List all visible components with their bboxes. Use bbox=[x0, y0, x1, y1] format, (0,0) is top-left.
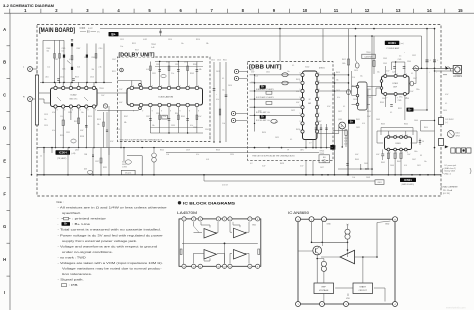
svg-text:R613: R613 bbox=[336, 72, 340, 74]
svg-text:D: D bbox=[3, 126, 6, 131]
svg-text:11: 11 bbox=[334, 8, 339, 13]
svg-text:tion tolerances.: tion tolerances. bbox=[62, 272, 93, 276]
svg-text:2: 2 bbox=[193, 219, 194, 221]
svg-text:BIAS OSC: BIAS OSC bbox=[70, 98, 79, 101]
svg-text:10u: 10u bbox=[81, 112, 84, 114]
test point TP302 bbox=[160, 29, 162, 36]
dbb tp box bbox=[319, 155, 330, 163]
svg-text:3-2 SCHEMATIC DIAGRAM: 3-2 SCHEMATIC DIAGRAM bbox=[3, 3, 55, 8]
phones jack bbox=[453, 66, 461, 74]
svg-text:1.0k: 1.0k bbox=[222, 123, 225, 125]
svg-text:3: 3 bbox=[300, 113, 301, 115]
svg-text:R340: R340 bbox=[166, 62, 170, 64]
resistor R331 bbox=[345, 130, 347, 136]
svg-text:3: 3 bbox=[300, 81, 301, 83]
wire/resistor/capacitor input cluster bbox=[40, 39, 112, 83]
wire x109 drop bbox=[108, 106, 110, 148]
svg-text:Note :: Note : bbox=[57, 200, 64, 204]
svg-text:R631: R631 bbox=[356, 119, 360, 121]
svg-text:0.8V: 0.8V bbox=[376, 154, 380, 156]
svg-text:TP: TP bbox=[287, 150, 289, 152]
svg-text:2.0V: 2.0V bbox=[367, 116, 371, 118]
svg-text:1: 1 bbox=[184, 219, 185, 221]
svg-text:C303: C303 bbox=[80, 27, 86, 30]
svg-text:12: 12 bbox=[365, 8, 370, 13]
capacitor C322 ellipse bbox=[125, 160, 131, 164]
svg-text:IC BLOCK DIAGRAMS: IC BLOCK DIAGRAMS bbox=[183, 201, 235, 206]
svg-text:8: 8 bbox=[242, 8, 245, 13]
svg-text:2: 2 bbox=[180, 86, 181, 88]
dbb unit dashed border bbox=[248, 62, 334, 161]
svg-text:R605: R605 bbox=[381, 162, 385, 164]
svg-text:R313: R313 bbox=[75, 77, 79, 79]
svg-text:[DBB UNIT]: [DBB UNIT] bbox=[249, 65, 282, 71]
svg-text:14: 14 bbox=[199, 266, 201, 268]
svg-text:4.5V: 4.5V bbox=[445, 94, 449, 96]
svg-text:0.1: 0.1 bbox=[390, 112, 392, 114]
battery icon bbox=[451, 148, 471, 153]
svg-text:7: 7 bbox=[387, 97, 388, 99]
svg-text:301: 301 bbox=[369, 97, 372, 99]
svg-text:1.2V: 1.2V bbox=[119, 89, 123, 91]
MAIN BOARD label bbox=[38, 26, 76, 32]
svg-text:5: 5 bbox=[407, 152, 408, 154]
svg-text:4: 4 bbox=[117, 8, 120, 13]
svg-text:2: 2 bbox=[170, 86, 171, 88]
svg-text:12: 12 bbox=[224, 266, 226, 268]
svg-text:R317: R317 bbox=[74, 121, 78, 123]
left ruler scale bbox=[3, 13, 10, 310]
capacitor dbb c2 bbox=[282, 81, 288, 85]
svg-text:R610: R610 bbox=[424, 127, 428, 129]
svg-text:C349: C349 bbox=[398, 100, 402, 102]
svg-text:- Signal path.: - Signal path. bbox=[58, 278, 85, 282]
svg-text:3%: 3% bbox=[97, 32, 100, 34]
svg-text:Voltage variations may be note: Voltage variations may be noted due to n… bbox=[62, 267, 162, 271]
svg-text:B.B: B.B bbox=[323, 157, 326, 159]
svg-text:C318: C318 bbox=[116, 129, 120, 131]
svg-text:R344: R344 bbox=[175, 113, 179, 115]
svg-text:L: L bbox=[23, 67, 25, 69]
svg-text:F: F bbox=[3, 191, 6, 196]
svg-text:DC-DC: DC-DC bbox=[125, 173, 132, 175]
svg-text:1: 1 bbox=[24, 8, 27, 13]
transformer T301 bbox=[152, 153, 157, 158]
svg-text:R618: R618 bbox=[296, 79, 300, 81]
svg-text:0.1: 0.1 bbox=[209, 136, 211, 138]
capacitor C341 bbox=[355, 63, 359, 68]
svg-text:C620: C620 bbox=[250, 70, 254, 72]
svg-text:1kHz: 1kHz bbox=[300, 150, 304, 152]
svg-text:CIRCUIT: CIRCUIT bbox=[358, 290, 367, 292]
svg-text:C625: C625 bbox=[275, 137, 279, 139]
svg-text:7: 7 bbox=[249, 219, 250, 221]
svg-text:: printed resistor: : printed resistor bbox=[72, 217, 106, 221]
svg-text:15: 15 bbox=[193, 266, 195, 268]
svg-text:C627: C627 bbox=[320, 167, 324, 169]
phones jack arrow bbox=[445, 66, 448, 70]
transistor Q301 bbox=[339, 122, 346, 129]
ic block diagrams header bbox=[178, 201, 181, 204]
svg-text:6: 6 bbox=[319, 129, 320, 131]
svg-text:4.7u: 4.7u bbox=[216, 99, 219, 101]
svg-text:R316: R316 bbox=[196, 39, 200, 41]
wire top bus bbox=[100, 28, 435, 30]
svg-text:0.01: 0.01 bbox=[206, 159, 209, 161]
AN8650 block diagram bbox=[296, 217, 398, 307]
capacitor C347 on rail bbox=[426, 58, 428, 69]
svg-text:4.7u: 4.7u bbox=[337, 97, 340, 99]
wires below IC302 bbox=[55, 108, 95, 148]
svg-text:D601: D601 bbox=[456, 133, 460, 135]
svg-text:(6V): (6V) bbox=[84, 169, 87, 171]
LA4570M pin numbers bbox=[183, 219, 258, 268]
svg-text:5: 5 bbox=[390, 152, 391, 154]
svg-text:3: 3 bbox=[300, 105, 301, 107]
svg-text:C343: C343 bbox=[383, 58, 387, 60]
svg-text:C612: C612 bbox=[211, 60, 215, 62]
svg-text:C347: C347 bbox=[413, 78, 417, 80]
svg-text:7: 7 bbox=[397, 97, 398, 99]
svg-text:9: 9 bbox=[142, 110, 143, 112]
capacitor dbb c1 bbox=[282, 73, 288, 77]
svg-text:0.5: 0.5 bbox=[399, 56, 401, 58]
svg-text:G: G bbox=[3, 224, 6, 229]
svg-text:0.1: 0.1 bbox=[222, 78, 224, 80]
svg-text:56k: 56k bbox=[206, 43, 209, 45]
svg-text:R319: R319 bbox=[88, 116, 92, 118]
svg-text:IC302: IC302 bbox=[71, 95, 78, 97]
svg-text:2: 2 bbox=[133, 86, 134, 88]
svg-text:THIS UNIT IS SUPPLIED AS THE C: THIS UNIT IS SUPPLIED AS THE CRMKRA20 BL… bbox=[252, 155, 295, 158]
svg-text:C601: C601 bbox=[377, 182, 381, 184]
svg-text:TOTAL CURRENT: TOTAL CURRENT bbox=[441, 185, 459, 188]
svg-text:0.5V: 0.5V bbox=[198, 116, 202, 118]
svg-text:0 dB: 0 dB bbox=[151, 47, 154, 49]
bus y152.3 bbox=[166, 151, 319, 153]
svg-text:56k: 56k bbox=[47, 51, 50, 53]
svg-text:10: 10 bbox=[249, 266, 251, 268]
svg-text:8: 8 bbox=[257, 219, 258, 221]
wire drop to DBB bbox=[279, 29, 281, 62]
svg-text:8: 8 bbox=[80, 110, 81, 112]
components above IC301 bbox=[373, 36, 405, 75]
component value micro labels 2 bbox=[44, 39, 427, 179]
svg-text:B+: B+ bbox=[111, 32, 115, 36]
svg-text:+: + bbox=[216, 94, 217, 96]
svg-text:C618: C618 bbox=[353, 99, 357, 101]
svg-text:C333: C333 bbox=[184, 62, 188, 64]
svg-text:BLK SEL AMP 1.0k: BLK SEL AMP 1.0k bbox=[256, 119, 270, 122]
bus y169 bbox=[338, 168, 372, 170]
wire B+ bus bbox=[119, 35, 422, 37]
svg-text:Q303: Q303 bbox=[75, 150, 79, 152]
svg-text:100u: 100u bbox=[414, 151, 418, 153]
resistor stubs left bbox=[43, 148, 45, 153]
capacitor C348 on rail bbox=[434, 58, 436, 69]
wire rail x348 bbox=[348, 29, 350, 175]
svg-text:C348: C348 bbox=[382, 98, 386, 100]
svg-text:C337: C337 bbox=[146, 116, 150, 118]
svg-text:5: 5 bbox=[224, 219, 225, 221]
svg-text:R323: R323 bbox=[216, 150, 220, 152]
connector CN302 pin bbox=[28, 97, 33, 102]
svg-text:470u: 470u bbox=[399, 97, 403, 99]
svg-text:(TR, AMP): (TR, AMP) bbox=[57, 157, 67, 160]
svg-text:1.0u: 1.0u bbox=[47, 67, 50, 69]
wire q301 base bbox=[317, 133, 339, 135]
svg-text:IC602: IC602 bbox=[305, 67, 309, 69]
svg-text:C336: C336 bbox=[156, 113, 160, 115]
svg-text:7: 7 bbox=[211, 8, 214, 13]
svg-text:+: + bbox=[436, 72, 437, 74]
svg-text:0.01: 0.01 bbox=[146, 69, 149, 71]
svg-text:0.022: 0.022 bbox=[88, 28, 93, 30]
capacitor on ground bus bbox=[87, 170, 92, 174]
svg-text:33k: 33k bbox=[92, 69, 95, 71]
svg-text:4.7u: 4.7u bbox=[190, 125, 193, 127]
svg-text:8: 8 bbox=[88, 110, 89, 112]
B+ label q301 bbox=[348, 120, 355, 124]
svg-text:B+: B+ bbox=[350, 120, 354, 124]
svg-text:6: 6 bbox=[179, 8, 182, 13]
svg-text:C612: C612 bbox=[216, 71, 220, 73]
IC301 label bbox=[385, 41, 400, 45]
svg-text:C320: C320 bbox=[230, 154, 234, 156]
svg-text:IC601: IC601 bbox=[395, 143, 400, 145]
svg-text:8: 8 bbox=[72, 110, 73, 112]
svg-text:2: 2 bbox=[55, 8, 58, 13]
svg-text:VR: VR bbox=[369, 89, 372, 91]
svg-text:START: START bbox=[359, 285, 366, 288]
svg-text:8: 8 bbox=[57, 110, 58, 112]
svg-text:IC304: IC304 bbox=[59, 151, 67, 155]
dbb input connectors bbox=[231, 69, 247, 122]
svg-text:GP08: GP08 bbox=[456, 135, 460, 137]
wire y130.6 bbox=[333, 130, 348, 132]
svg-text:0.8V: 0.8V bbox=[251, 72, 255, 74]
svg-text:2SB: 2SB bbox=[84, 154, 87, 156]
wire drop to DBB right bbox=[322, 29, 324, 62]
svg-text:9: 9 bbox=[198, 110, 199, 112]
svg-text:0.5V: 0.5V bbox=[327, 106, 331, 108]
DOLBY UNIT label bbox=[118, 52, 155, 58]
svg-text:C313: C313 bbox=[44, 114, 48, 116]
svg-text:B+: B+ bbox=[408, 108, 412, 112]
svg-text:C312: C312 bbox=[60, 77, 64, 79]
svg-text:10: 10 bbox=[303, 8, 308, 13]
svg-text:+: + bbox=[437, 60, 439, 62]
svg-text:6V: 6V bbox=[420, 155, 423, 157]
svg-text:R628: R628 bbox=[280, 163, 284, 165]
dbb IC602 bbox=[301, 71, 319, 140]
svg-text:: B+ Line: : B+ Line bbox=[72, 222, 91, 226]
svg-text:GND: GND bbox=[252, 225, 257, 227]
svg-text:100k: 100k bbox=[342, 63, 346, 65]
svg-text:1.6V: 1.6V bbox=[407, 154, 411, 156]
svg-text:8: 8 bbox=[64, 110, 65, 112]
svg-text:PB : 95mA: PB : 95mA bbox=[443, 189, 453, 192]
svg-text:C610: C610 bbox=[443, 110, 447, 112]
svg-text:0.8V: 0.8V bbox=[80, 130, 84, 132]
svg-text:220P: 220P bbox=[344, 138, 349, 140]
wire right y120 bbox=[421, 120, 435, 122]
svg-text:L301: L301 bbox=[45, 77, 49, 79]
svg-text:602: 602 bbox=[308, 103, 311, 105]
svg-text:C352: C352 bbox=[412, 55, 416, 57]
wire VR to IC301 bbox=[367, 86, 380, 88]
svg-text:- no mark : TWD: - no mark : TWD bbox=[58, 255, 86, 259]
svg-text:[MAIN BOARD]: [MAIN BOARD] bbox=[39, 28, 75, 34]
svg-text:TP602: TP602 bbox=[320, 153, 325, 155]
svg-text:R307: R307 bbox=[77, 48, 81, 50]
svg-text:C332: C332 bbox=[175, 64, 179, 66]
svg-text:under no-signal conditions.: under no-signal conditions. bbox=[62, 250, 113, 254]
svg-text:R351: R351 bbox=[398, 108, 402, 110]
components right of IC601 bbox=[419, 139, 421, 146]
svg-text:+: + bbox=[429, 72, 430, 74]
svg-text:R620: R620 bbox=[260, 66, 264, 68]
converter box X301 bbox=[121, 170, 135, 174]
svg-text:0.1: 0.1 bbox=[290, 139, 292, 141]
capacitor dbb c3 bbox=[271, 119, 277, 123]
svg-text:6: 6 bbox=[319, 89, 320, 91]
svg-text:1.0k: 1.0k bbox=[166, 154, 169, 156]
svg-text:9: 9 bbox=[170, 110, 171, 112]
svg-text:C6: C6 bbox=[422, 141, 424, 143]
svg-text:10u: 10u bbox=[287, 82, 290, 84]
svg-text:56k: 56k bbox=[97, 124, 100, 126]
svg-text:C308: C308 bbox=[84, 57, 88, 59]
node junction top bus bbox=[355, 28, 357, 30]
svg-text:1.0k: 1.0k bbox=[352, 177, 355, 179]
svg-text:1k: 1k bbox=[40, 156, 42, 158]
svg-text:6: 6 bbox=[319, 73, 320, 75]
svg-text:68k: 68k bbox=[124, 122, 127, 124]
svg-text:C614: C614 bbox=[217, 60, 221, 62]
svg-text:15: 15 bbox=[458, 8, 463, 13]
bus y147.6 bbox=[37, 147, 333, 149]
IC601 label black bbox=[400, 178, 416, 182]
resistor dbb r2 bbox=[266, 102, 272, 105]
wire dbb to amp bbox=[317, 74, 349, 76]
svg-text:H: H bbox=[3, 257, 6, 262]
svg-text:R604: R604 bbox=[404, 124, 408, 126]
wire dbb drops bbox=[305, 160, 307, 175]
svg-text:R345: R345 bbox=[181, 116, 185, 118]
svg-text:specified.: specified. bbox=[62, 211, 81, 215]
svg-text:13: 13 bbox=[396, 8, 401, 13]
svg-text:R320: R320 bbox=[60, 135, 64, 137]
C601 box label bbox=[375, 180, 384, 185]
capacitor C346 bbox=[410, 81, 414, 86]
dolby left trimmer bbox=[120, 68, 124, 72]
svg-text:10u: 10u bbox=[44, 119, 47, 121]
main board dashed border bbox=[37, 25, 441, 197]
svg-text:R613: R613 bbox=[352, 86, 356, 88]
svg-text:DC IN 3V: DC IN 3V bbox=[446, 119, 455, 121]
svg-text:C339: C339 bbox=[171, 125, 175, 127]
svg-text:(R6) x 2: (R6) x 2 bbox=[445, 173, 451, 175]
svg-text:C316: C316 bbox=[168, 39, 172, 41]
B+ label dbb upper bbox=[260, 85, 266, 89]
svg-text:10k: 10k bbox=[152, 125, 155, 127]
svg-text:LA4570M: LA4570M bbox=[364, 56, 373, 59]
svg-text:3: 3 bbox=[300, 89, 301, 91]
svg-text:10u: 10u bbox=[424, 161, 427, 163]
svg-text:11: 11 bbox=[229, 266, 231, 268]
svg-text:0.5V: 0.5V bbox=[300, 166, 304, 168]
svg-text:+: + bbox=[430, 60, 432, 62]
svg-text:C604: C604 bbox=[414, 120, 418, 122]
dbb bottom bus bbox=[254, 147, 256, 149]
svg-text:C319: C319 bbox=[44, 125, 48, 127]
svg-text:9: 9 bbox=[152, 110, 153, 112]
svg-text:CONV: CONV bbox=[122, 166, 128, 168]
svg-text:R609: R609 bbox=[355, 159, 359, 161]
dbb bottom components bbox=[306, 124, 328, 148]
svg-text:2.2k: 2.2k bbox=[99, 67, 102, 69]
svg-text:Q301: Q301 bbox=[338, 119, 342, 121]
svg-text:R341: R341 bbox=[193, 64, 197, 66]
svg-text:C614: C614 bbox=[354, 70, 358, 72]
svg-text:C609: C609 bbox=[364, 163, 368, 165]
svg-text:R349: R349 bbox=[380, 102, 384, 104]
svg-text:E: E bbox=[3, 158, 6, 163]
svg-text:1.1V: 1.1V bbox=[60, 116, 64, 118]
svg-text:9: 9 bbox=[189, 110, 190, 112]
svg-text:220u: 220u bbox=[416, 89, 420, 91]
svg-text:0.01: 0.01 bbox=[77, 67, 80, 69]
svg-text:6: 6 bbox=[319, 97, 320, 99]
wire dolby exit bottom left bbox=[120, 111, 122, 148]
IC601 feedback wires bbox=[377, 130, 417, 132]
wire right rail x434 bbox=[434, 68, 436, 175]
svg-text:2: 2 bbox=[152, 86, 153, 88]
svg-text:IC601: IC601 bbox=[404, 178, 412, 182]
battery connector box bbox=[439, 139, 444, 146]
svg-text:C314: C314 bbox=[90, 77, 94, 79]
svg-text:C: C bbox=[3, 93, 6, 98]
dolby unit dashed border bbox=[118, 57, 211, 142]
svg-text:9: 9 bbox=[180, 110, 181, 112]
wire loop bbox=[127, 155, 142, 157]
svg-text:eserviceinfo.com: eserviceinfo.com bbox=[446, 306, 465, 310]
dolby components below IC303 bbox=[149, 107, 203, 134]
svg-text:9: 9 bbox=[257, 266, 258, 268]
wire rail x372 bbox=[371, 36, 373, 175]
svg-text:C330: C330 bbox=[156, 64, 160, 66]
svg-text:14: 14 bbox=[427, 8, 432, 13]
svg-text:4.7k: 4.7k bbox=[404, 165, 407, 167]
svg-text:R319: R319 bbox=[97, 119, 101, 121]
wires below IC301 bbox=[384, 96, 386, 108]
svg-text:6: 6 bbox=[319, 81, 320, 83]
svg-text:R614: R614 bbox=[367, 111, 371, 113]
svg-text:C608: C608 bbox=[366, 177, 370, 179]
svg-text:C616: C616 bbox=[228, 85, 232, 87]
svg-text:C341: C341 bbox=[205, 129, 209, 131]
svg-text:B: B bbox=[3, 60, 6, 65]
svg-text:R309: R309 bbox=[92, 57, 96, 59]
B+ label dbb lower bbox=[260, 115, 266, 119]
svg-text:(DC 3V): (DC 3V) bbox=[443, 193, 450, 195]
wire right y131 bbox=[421, 130, 435, 132]
svg-text:C622: C622 bbox=[291, 110, 295, 112]
svg-text:C311: C311 bbox=[66, 132, 70, 134]
svg-text:0.8V: 0.8V bbox=[296, 91, 300, 93]
svg-text:GND: GND bbox=[327, 224, 332, 226]
